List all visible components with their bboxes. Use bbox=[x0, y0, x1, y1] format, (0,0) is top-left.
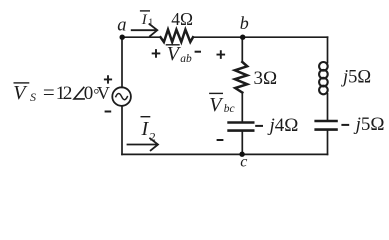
svg-text:I: I bbox=[141, 12, 148, 28]
svg-text:j4Ω: j4Ω bbox=[267, 115, 299, 136]
svg-text:12: 12 bbox=[56, 83, 73, 104]
svg-text:V: V bbox=[209, 94, 224, 116]
svg-text:j5Ω: j5Ω bbox=[341, 68, 371, 88]
svg-text:b: b bbox=[240, 13, 249, 33]
svg-text:1: 1 bbox=[148, 17, 153, 28]
svg-text:4Ω: 4Ω bbox=[171, 9, 193, 29]
svg-text:0: 0 bbox=[84, 83, 94, 104]
svg-text:bc: bc bbox=[224, 103, 235, 115]
svg-text:3Ω: 3Ω bbox=[254, 68, 278, 89]
svg-text:=: = bbox=[43, 80, 55, 104]
svg-text:V: V bbox=[13, 82, 28, 104]
svg-text:a: a bbox=[117, 15, 126, 35]
svg-text:j5Ω: j5Ω bbox=[353, 114, 385, 135]
svg-text:ab: ab bbox=[180, 53, 192, 65]
svg-text:I: I bbox=[141, 118, 150, 140]
svg-text:c: c bbox=[240, 154, 247, 171]
svg-text:S: S bbox=[30, 90, 36, 104]
svg-text:2: 2 bbox=[150, 129, 156, 143]
svg-text:V: V bbox=[97, 83, 110, 103]
